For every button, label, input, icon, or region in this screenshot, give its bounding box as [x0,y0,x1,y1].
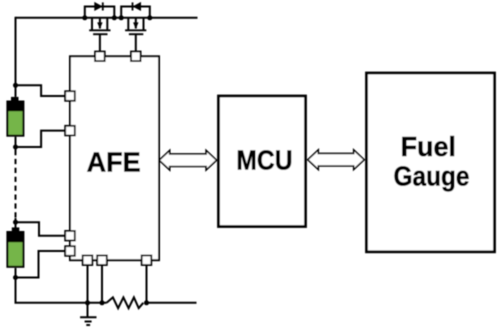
wire AFE pin to resistor left node [101,260,103,303]
AFE block [70,56,159,260]
wire cell1 bottom branch to AFE pin [16,131,71,147]
battery cell B1 [7,97,23,136]
pin cell1 negative on AFE left [65,126,75,136]
wire cell2 top branch to AFE pin [16,222,71,236]
pin SRP on AFE bottom [97,255,107,265]
wire cell1 bottom stub [15,137,17,150]
junction resistor right node [144,300,149,305]
wire top rail PACK+ [16,17,198,19]
junction top rail right diode left [119,15,124,20]
wire cell2 top stub [15,218,17,232]
transistor Q2 charge FET [125,18,146,52]
junction resistor left node [100,300,105,305]
svg-text:MCU: MCU [236,145,292,176]
pin cell1 positive on AFE left [65,91,75,101]
svg-text:Fuel: Fuel [401,131,456,162]
junction cell1 bottom node [13,145,18,150]
pin gate Q1 on AFE top [95,52,105,62]
wire dashed mid-stack [15,150,17,219]
body diode D2 loop of Q2 [121,7,150,18]
wire AFE pin to ground node [87,260,89,303]
svg-text:Gauge: Gauge [394,160,470,191]
wire bottom rail right segment PACK- [147,302,197,304]
junction top rail right diode right [147,15,152,20]
pin cell2 positive on AFE left [65,231,75,241]
Fuel Gauge block [367,73,495,252]
body diode D2 triangle [133,2,141,10]
wire left rail top segment [15,17,17,97]
junction top rail left diode right [112,15,117,20]
transistor Q1 discharge FET [89,18,110,52]
wire cell2 bottom branch to AFE pin [16,251,71,278]
body diode D1 loop of Q1 [85,7,115,18]
body diode D2 cathode bar [132,2,134,10]
junction cell1 top node [13,83,18,88]
arrow AFE-MCU bidirectional [159,150,216,170]
pin VSS on AFE bottom [83,255,93,265]
arrow MCU-FuelGauge bidirectional [308,150,364,170]
wire AFE pin to resistor right node [146,260,148,303]
junction ground node [85,300,90,305]
pin SRN on AFE bottom [142,255,152,265]
MCU block [219,96,306,227]
wire cell1 top branch to AFE pin [16,85,71,96]
resistor RSENSE [107,297,144,308]
ground [80,303,96,325]
body diode D1 cathode bar [102,2,104,10]
battery cell B2 [7,227,23,266]
junction top rail left diode left [82,15,87,20]
body diode D1 triangle [95,2,103,10]
svg-text:AFE: AFE [87,146,141,177]
wire bottom rail middle segment [88,302,107,304]
wire left rail bottom segment to bottom rail [16,268,89,303]
pin gate Q2 on AFE top [131,52,141,62]
junction cell2 bottom node [13,275,18,280]
junction cell2 top node [13,220,18,225]
pin cell2 negative on AFE left [65,246,75,256]
